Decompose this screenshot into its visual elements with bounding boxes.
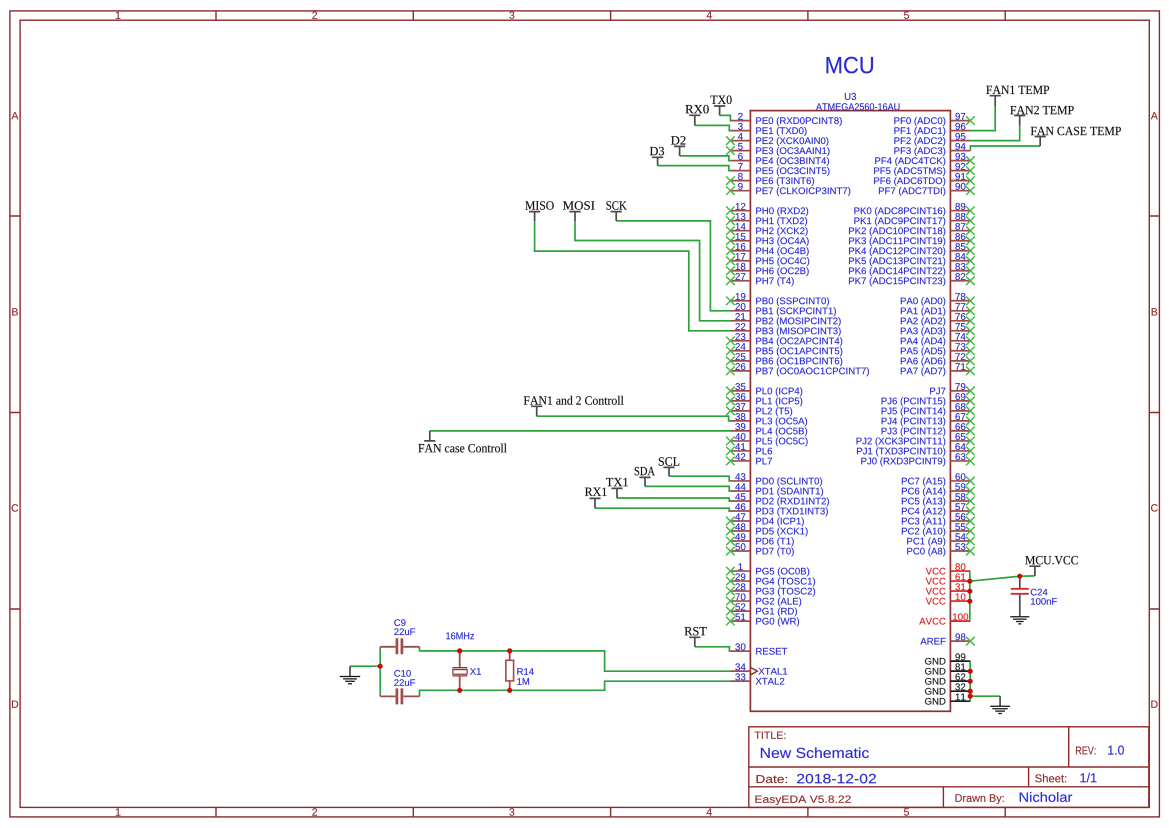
wire TX1 to pin 45 [617, 498, 731, 501]
ground (C24) [1010, 616, 1029, 624]
U3 pin 45 PD2 (left) [730, 493, 829, 506]
wire FAN case Controll to pin 39 [430, 430, 731, 432]
U3 pin 93 PF4 (right) [875, 153, 974, 166]
net label SCK [606, 201, 626, 221]
wire RST to pin 30 [695, 647, 731, 651]
U3 pin 44 PD1 (left) [730, 483, 823, 496]
IC U3 ATMEGA2560-16AU body [750, 111, 950, 712]
U3 pin 27 PH7 (left) [726, 273, 794, 286]
net label RX0 [685, 105, 708, 125]
junction [378, 664, 383, 669]
U3 pin 13 PH1 (left) [726, 213, 807, 226]
U3 pin 62 GND (right) [925, 673, 970, 684]
U3 pin 69 PJ6 (right) [882, 393, 975, 406]
wire D2 to pin 6 [680, 156, 731, 161]
U3 pin 87 PK2 (right) [849, 223, 975, 236]
U3 pin 96 PF1 (right) [894, 123, 970, 136]
U3 pin 29 PG4 (left) [726, 573, 815, 586]
U3 pin 100 AVCC (right) [919, 613, 970, 624]
U3 pin 99 GND (right) [925, 653, 970, 664]
junction [1017, 574, 1022, 579]
junction [968, 669, 973, 674]
wire pin 95 to FAN2 TEMP [970, 125, 1019, 140]
schematic title MCU [827, 57, 874, 74]
U3 pin 43 PD0 (left) [730, 473, 822, 486]
net label FAN CASE TEMP [1031, 127, 1121, 146]
U3 pin 32 GND (right) [925, 683, 970, 694]
U3 pin 42 PL7 (left) [726, 453, 772, 465]
U3 pin 14 PH2 (left) [726, 223, 808, 236]
U3 pin 84 PK5 (right) [849, 253, 975, 266]
U3 pin 39 PL4 (left) [730, 423, 807, 436]
title block [749, 727, 1149, 808]
wire TX0 to pin 2 [720, 115, 731, 120]
net label RX1 [585, 488, 607, 509]
net label MISO [525, 201, 553, 221]
U3 pin 23 PB4 (left) [726, 333, 842, 346]
U3 pin 64 PJ1 (right) [857, 443, 975, 456]
U3 pin 38 PL3 (left) [730, 413, 807, 426]
U3 pin 40 PL5 (left) [726, 433, 808, 446]
net label FAN2 TEMP [1010, 106, 1073, 126]
U3 pin 1 PG5 (left) [726, 563, 809, 576]
U3 pin 60 PC7 (right) [902, 473, 975, 486]
junction [967, 599, 972, 604]
junction [967, 579, 972, 584]
U3 pin 49 PD6 (left) [726, 533, 794, 546]
U3 pin 51 PG0 (left) [726, 613, 799, 626]
U3 pin 72 PA6 (right) [901, 353, 975, 366]
wire crystal left bus [379, 647, 381, 697]
wire RX1 to pin 46 [595, 508, 731, 511]
U3 pin 48 PD5 (left) [726, 523, 808, 536]
U3 pin 70 PG2 (left) [726, 593, 801, 606]
net label TX0 [711, 96, 732, 116]
U3 pin 37 PL2 (left) [726, 403, 792, 416]
U3 pin 97 PF0 (right) [894, 113, 974, 126]
U3 pin 71 PA7 (right) [901, 363, 975, 376]
U3 pin 4 PE2 (left) [726, 133, 828, 146]
U3 pin 85 PK4 (right) [849, 243, 975, 256]
U3 pin 75 PA3 (right) [901, 323, 975, 336]
U3 pin 20 PB1 (left) [730, 303, 835, 316]
U3 pin 34 XTAL1 (left) [730, 663, 787, 675]
U3 pin 36 PL1 (left) [726, 393, 802, 406]
U3 pin 6 PE4 (left) [730, 153, 829, 166]
wire FAN1 and 2 Controll to pin 38 [537, 416, 731, 421]
U3 pin 17 PH5 (left) [726, 253, 809, 266]
net label MOSI [563, 201, 595, 221]
U3 value ATMEGA2560-16AU [816, 103, 899, 110]
U3 pin 80 VCC (right) [926, 563, 971, 574]
U3 pin 68 PJ5 (right) [882, 403, 975, 416]
U3 pin 95 PF2 (right) [894, 133, 970, 146]
U3 pin 24 PB5 (left) [726, 343, 842, 356]
U3 pin 94 PF3 (right) [894, 143, 970, 156]
U3 pin 54 PC1 (right) [907, 533, 974, 546]
U3 reference designator [845, 93, 856, 100]
U3 pin 56 PC3 (right) [902, 513, 975, 526]
capacitor C9 [380, 619, 419, 654]
U3 pin 35 PL0 (left) [726, 383, 802, 396]
U3 pin 21 PB2 (left) [730, 313, 840, 326]
net label SCL [659, 457, 679, 476]
wire D3 to pin 7 [658, 166, 731, 171]
U3 pin 81 GND (right) [925, 663, 970, 674]
U3 pin 25 PB6 (left) [726, 353, 842, 366]
U3 pin 58 PC5 (right) [902, 493, 975, 506]
U3 pin 63 PJ0 (right) [861, 453, 974, 466]
U3 pin 11 GND (right) [925, 694, 970, 705]
wire crystal top to XTAL1 [420, 647, 731, 671]
net label MCU.VCC [1025, 556, 1078, 576]
U3 pin 5 PE3 (left) [726, 143, 829, 156]
ground (GND pins) [990, 696, 1010, 713]
U3 pin 7 PE5 (left) [730, 163, 829, 176]
junction [507, 688, 512, 693]
U3 pin 30 RESET (left) [730, 643, 787, 654]
wire MOSI to pin 21 [575, 221, 731, 321]
U3 pin 89 PK0 (right) [854, 203, 974, 216]
net label TX1 [606, 478, 628, 498]
U3 pin 53 PC0 (right) [907, 543, 974, 556]
U3 pin 57 PC4 (right) [902, 503, 975, 516]
U3 pin 73 PA5 (right) [901, 343, 975, 356]
crystal X1 [452, 651, 481, 690]
U3 pin 3 PE1 (left) [730, 123, 806, 136]
U3 pin 19 PB0 (left) [726, 293, 829, 306]
U3 pin 52 PG1 (left) [726, 603, 797, 616]
resistor R14 [506, 651, 534, 690]
U3 pin 74 PA4 (right) [901, 333, 975, 346]
wire VCC bus [969, 571, 971, 621]
U3 pin 41 PL6 (left) [726, 443, 772, 455]
ground (crystal) [340, 666, 360, 684]
U3 pin 86 PK3 (right) [849, 233, 975, 246]
U3 pin 28 PG3 (left) [726, 583, 815, 596]
net label D2 [671, 136, 685, 156]
wire MISO to pin 22 [535, 221, 731, 331]
U3 pin 66 PJ3 (right) [882, 423, 975, 436]
junction [968, 689, 973, 694]
U3 pin 10 VCC (right) [926, 593, 971, 604]
U3 pin 83 PK6 (right) [849, 263, 975, 276]
wire GND stub to ground [970, 695, 1000, 697]
U3 pin 55 PC2 (right) [902, 523, 975, 536]
wire ground stub left [350, 665, 380, 667]
U3 pin 77 PA1 (right) [901, 303, 975, 316]
U3 pin 92 PF5 (right) [874, 163, 975, 176]
U3 pin 90 PF7 (right) [879, 183, 975, 196]
U3 pin 79 PJ7 (right) [930, 383, 975, 395]
U3 pin 91 PF6 (right) [874, 173, 975, 186]
U3 pin 12 PH0 (left) [726, 203, 808, 216]
U3 pin 78 PA0 (right) [901, 293, 975, 306]
junction [507, 648, 512, 653]
net label RST [685, 627, 707, 647]
junction [457, 648, 462, 653]
junction [968, 694, 973, 699]
U3 pin 33 XTAL2 (left) [730, 673, 784, 684]
net label D3 [650, 147, 664, 166]
capacitor C10 [380, 670, 419, 704]
U3 pin 47 PD4 (left) [726, 513, 804, 526]
U3 pin 88 PK1 (right) [854, 213, 974, 226]
U3 pin 67 PJ4 (right) [882, 413, 975, 426]
wire crystal bottom to XTAL2 [420, 681, 731, 696]
crystal frequency label 16MHz [446, 632, 474, 639]
wire SCL to pin 43 [669, 476, 731, 481]
U3 pin 18 PH6 (left) [726, 263, 809, 276]
net label SDA [635, 467, 655, 487]
U3 pin 15 PH3 (left) [726, 233, 809, 246]
U3 pin 31 VCC (right) [926, 583, 971, 594]
net label FAN case Controll [418, 431, 506, 453]
U3 pin 76 PA2 (right) [901, 313, 975, 326]
U3 pin 26 PB7 (left) [726, 363, 869, 376]
junction [967, 589, 972, 594]
U3 pin 8 PE6 (left) [726, 173, 814, 186]
U3 pin 98 AREF (right) [920, 633, 974, 645]
U3 pin 59 PC6 (right) [902, 483, 975, 496]
U3 pin 82 PK7 (right) [849, 273, 975, 286]
junction [968, 679, 973, 684]
U3 pin 22 PB3 (left) [730, 323, 840, 336]
wire pin 94 to FAN CASE TEMP [970, 146, 1040, 151]
U3 pin 61 VCC (right) [926, 573, 971, 584]
U3 pin 65 PJ2 (right) [857, 433, 975, 446]
net label FAN1 and 2 Controll [524, 396, 624, 416]
U3 pin 46 PD3 (left) [730, 503, 827, 516]
wire VCC tap to MCU.VCC [970, 576, 1035, 581]
junction [457, 688, 462, 693]
wire RX0 to pin 3 [695, 125, 731, 130]
wire pin 96 to FAN1 TEMP [970, 106, 995, 131]
net label FAN1 TEMP [986, 86, 1049, 106]
U3 pin 2 PE0 (left) [730, 113, 841, 126]
wire GND bus [969, 661, 971, 701]
wire SDA to pin 44 [645, 486, 731, 491]
U3 pin 9 PE7 (left) [726, 183, 850, 196]
U3 pin 50 PD7 (left) [726, 543, 794, 556]
wire SCK to pin 20 [616, 221, 731, 311]
capacitor C24 [1011, 576, 1057, 616]
U3 pin 16 PH4 (left) [726, 243, 809, 256]
